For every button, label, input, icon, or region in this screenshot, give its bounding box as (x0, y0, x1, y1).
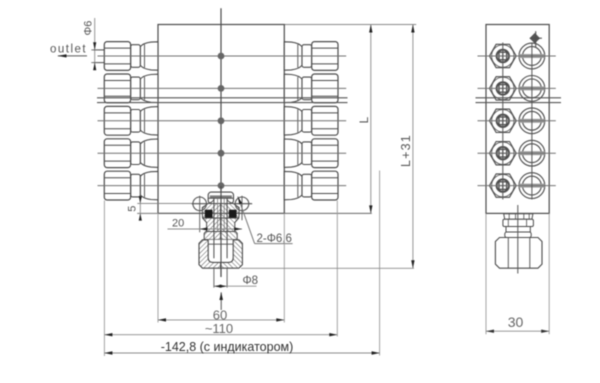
svg-text:30: 30 (508, 314, 524, 330)
svg-text:outlet: outlet (50, 44, 87, 56)
svg-text:20: 20 (172, 218, 184, 230)
svg-text:5: 5 (127, 206, 139, 212)
svg-text:Φ8: Φ8 (243, 275, 259, 287)
svg-text:-142,8 (с индикатором): -142,8 (с индикатором) (161, 340, 294, 354)
svg-text:Φ6: Φ6 (83, 21, 95, 36)
svg-text:2-Φ6,6: 2-Φ6,6 (257, 233, 292, 245)
svg-text:L: L (357, 117, 371, 124)
svg-text:60: 60 (213, 307, 227, 322)
svg-text:L+31: L+31 (399, 134, 413, 167)
svg-text:~110: ~110 (205, 321, 233, 336)
